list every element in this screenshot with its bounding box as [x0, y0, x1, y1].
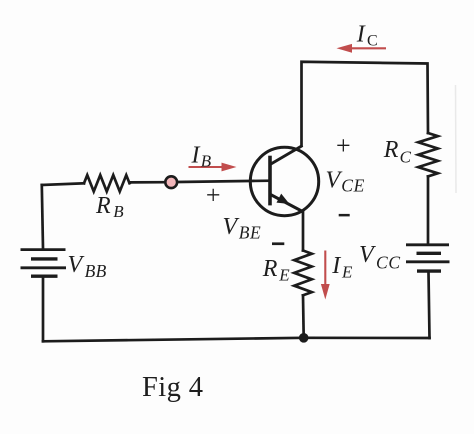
svg-text:B: B: [113, 202, 124, 221]
svg-text:+: +: [206, 181, 221, 210]
svg-text:V: V: [223, 214, 240, 240]
svg-text:Fig 4: Fig 4: [142, 372, 203, 403]
svg-text:C: C: [367, 32, 378, 49]
svg-text:V: V: [359, 242, 376, 268]
svg-text:B: B: [201, 152, 212, 171]
svg-text:I: I: [331, 253, 341, 279]
svg-text:R: R: [262, 256, 278, 282]
svg-text:+: +: [336, 131, 351, 160]
svg-text:E: E: [341, 263, 353, 282]
svg-text:R: R: [383, 137, 399, 163]
svg-text:BE: BE: [239, 222, 261, 242]
svg-text:CC: CC: [376, 252, 401, 272]
svg-text:BB: BB: [85, 261, 107, 281]
svg-text:C: C: [400, 148, 412, 167]
svg-text:I: I: [356, 22, 366, 48]
svg-text:CE: CE: [341, 175, 365, 195]
svg-text:E: E: [278, 265, 290, 284]
svg-text:R: R: [95, 193, 111, 219]
svg-text:I: I: [191, 143, 201, 169]
svg-text:V: V: [326, 168, 343, 194]
svg-text:V: V: [68, 252, 85, 278]
